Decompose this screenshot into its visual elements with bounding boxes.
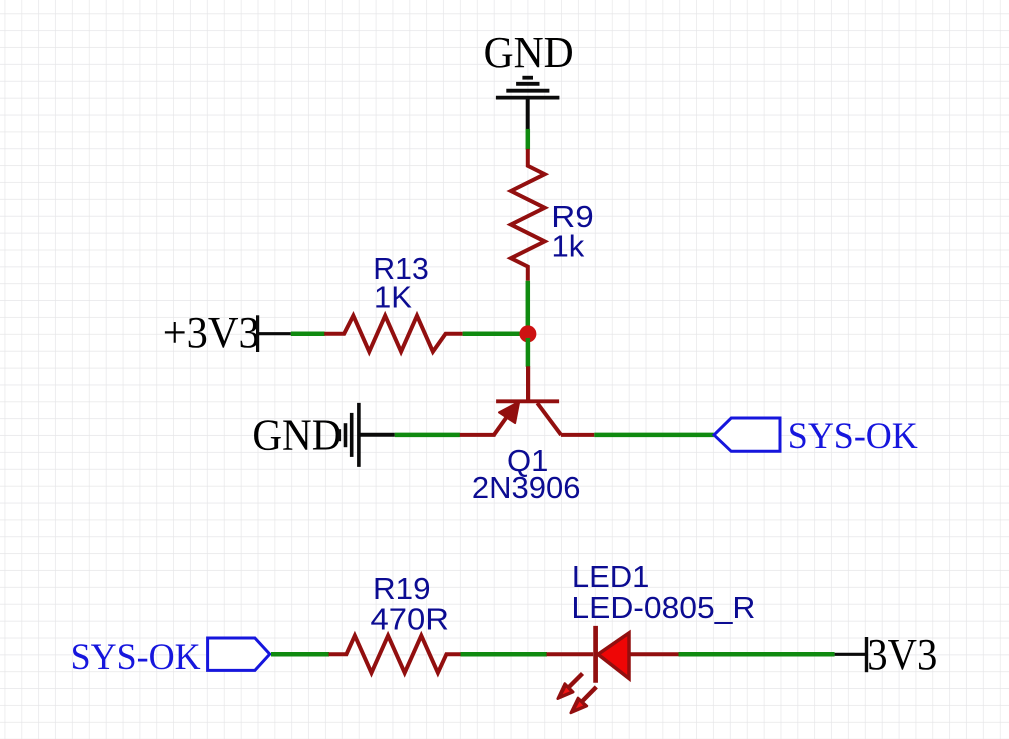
- svg-text:2N3906: 2N3906: [472, 470, 581, 505]
- svg-text:GND: GND: [484, 28, 574, 77]
- svg-text:470R: 470R: [371, 602, 450, 637]
- LED1 emission arrow 2 head: [571, 698, 587, 713]
- LED1 cathode bar: [593, 626, 598, 683]
- port SYS-OK (left) shape: [208, 638, 270, 670]
- LED1 anode lead: [547, 652, 594, 656]
- power port +3V3 bar: [256, 315, 259, 352]
- svg-text:LED-0805_R: LED-0805_R: [571, 590, 755, 625]
- svg-text:1K: 1K: [374, 279, 412, 314]
- svg-text:3V3: 3V3: [867, 630, 937, 679]
- transistor Q1: [459, 366, 594, 435]
- port SYS-OK (right) shape: [714, 418, 780, 451]
- svg-text:SYS-OK: SYS-OK: [71, 637, 201, 678]
- junction node: [519, 325, 536, 342]
- wire GND to Q1 emitter: [395, 433, 460, 438]
- power port +3V3 pin wire: [258, 332, 291, 335]
- svg-text:+3V3: +3V3: [163, 308, 260, 357]
- svg-text:SYS-OK: SYS-OK: [788, 416, 918, 457]
- svg-text:LED1: LED1: [572, 559, 650, 594]
- wire R19 to LED1: [461, 652, 548, 657]
- LED1 cathode lead: [629, 652, 679, 656]
- resistor R19: [329, 636, 461, 673]
- LED1 emission arrow 1 shaft: [567, 674, 583, 690]
- wire R13 to junction: [463, 331, 522, 336]
- wire port to R19: [271, 652, 329, 657]
- power port 3V3 pin wire: [835, 653, 867, 656]
- wire LED1 to 3V3: [679, 652, 835, 657]
- ground symbol (left): [339, 403, 395, 467]
- wire junction to Q1 base: [526, 338, 531, 367]
- LED1 emission arrow 2 shaft: [581, 687, 596, 703]
- svg-text:GND: GND: [252, 410, 341, 459]
- power port 3V3 bar: [865, 637, 868, 672]
- resistor R13: [324, 316, 462, 352]
- wire Q1 collector to port: [594, 433, 714, 438]
- ground symbol (top): [496, 78, 560, 130]
- LED1 emission arrow 1 head: [558, 684, 574, 699]
- wire R9 to junction: [526, 281, 531, 334]
- wire +3V3 to R13: [291, 331, 325, 336]
- LED1 triangle: [598, 633, 629, 679]
- resistor R9: [511, 149, 545, 281]
- svg-text:1k: 1k: [552, 228, 585, 263]
- wire GND to R9: [526, 129, 531, 150]
